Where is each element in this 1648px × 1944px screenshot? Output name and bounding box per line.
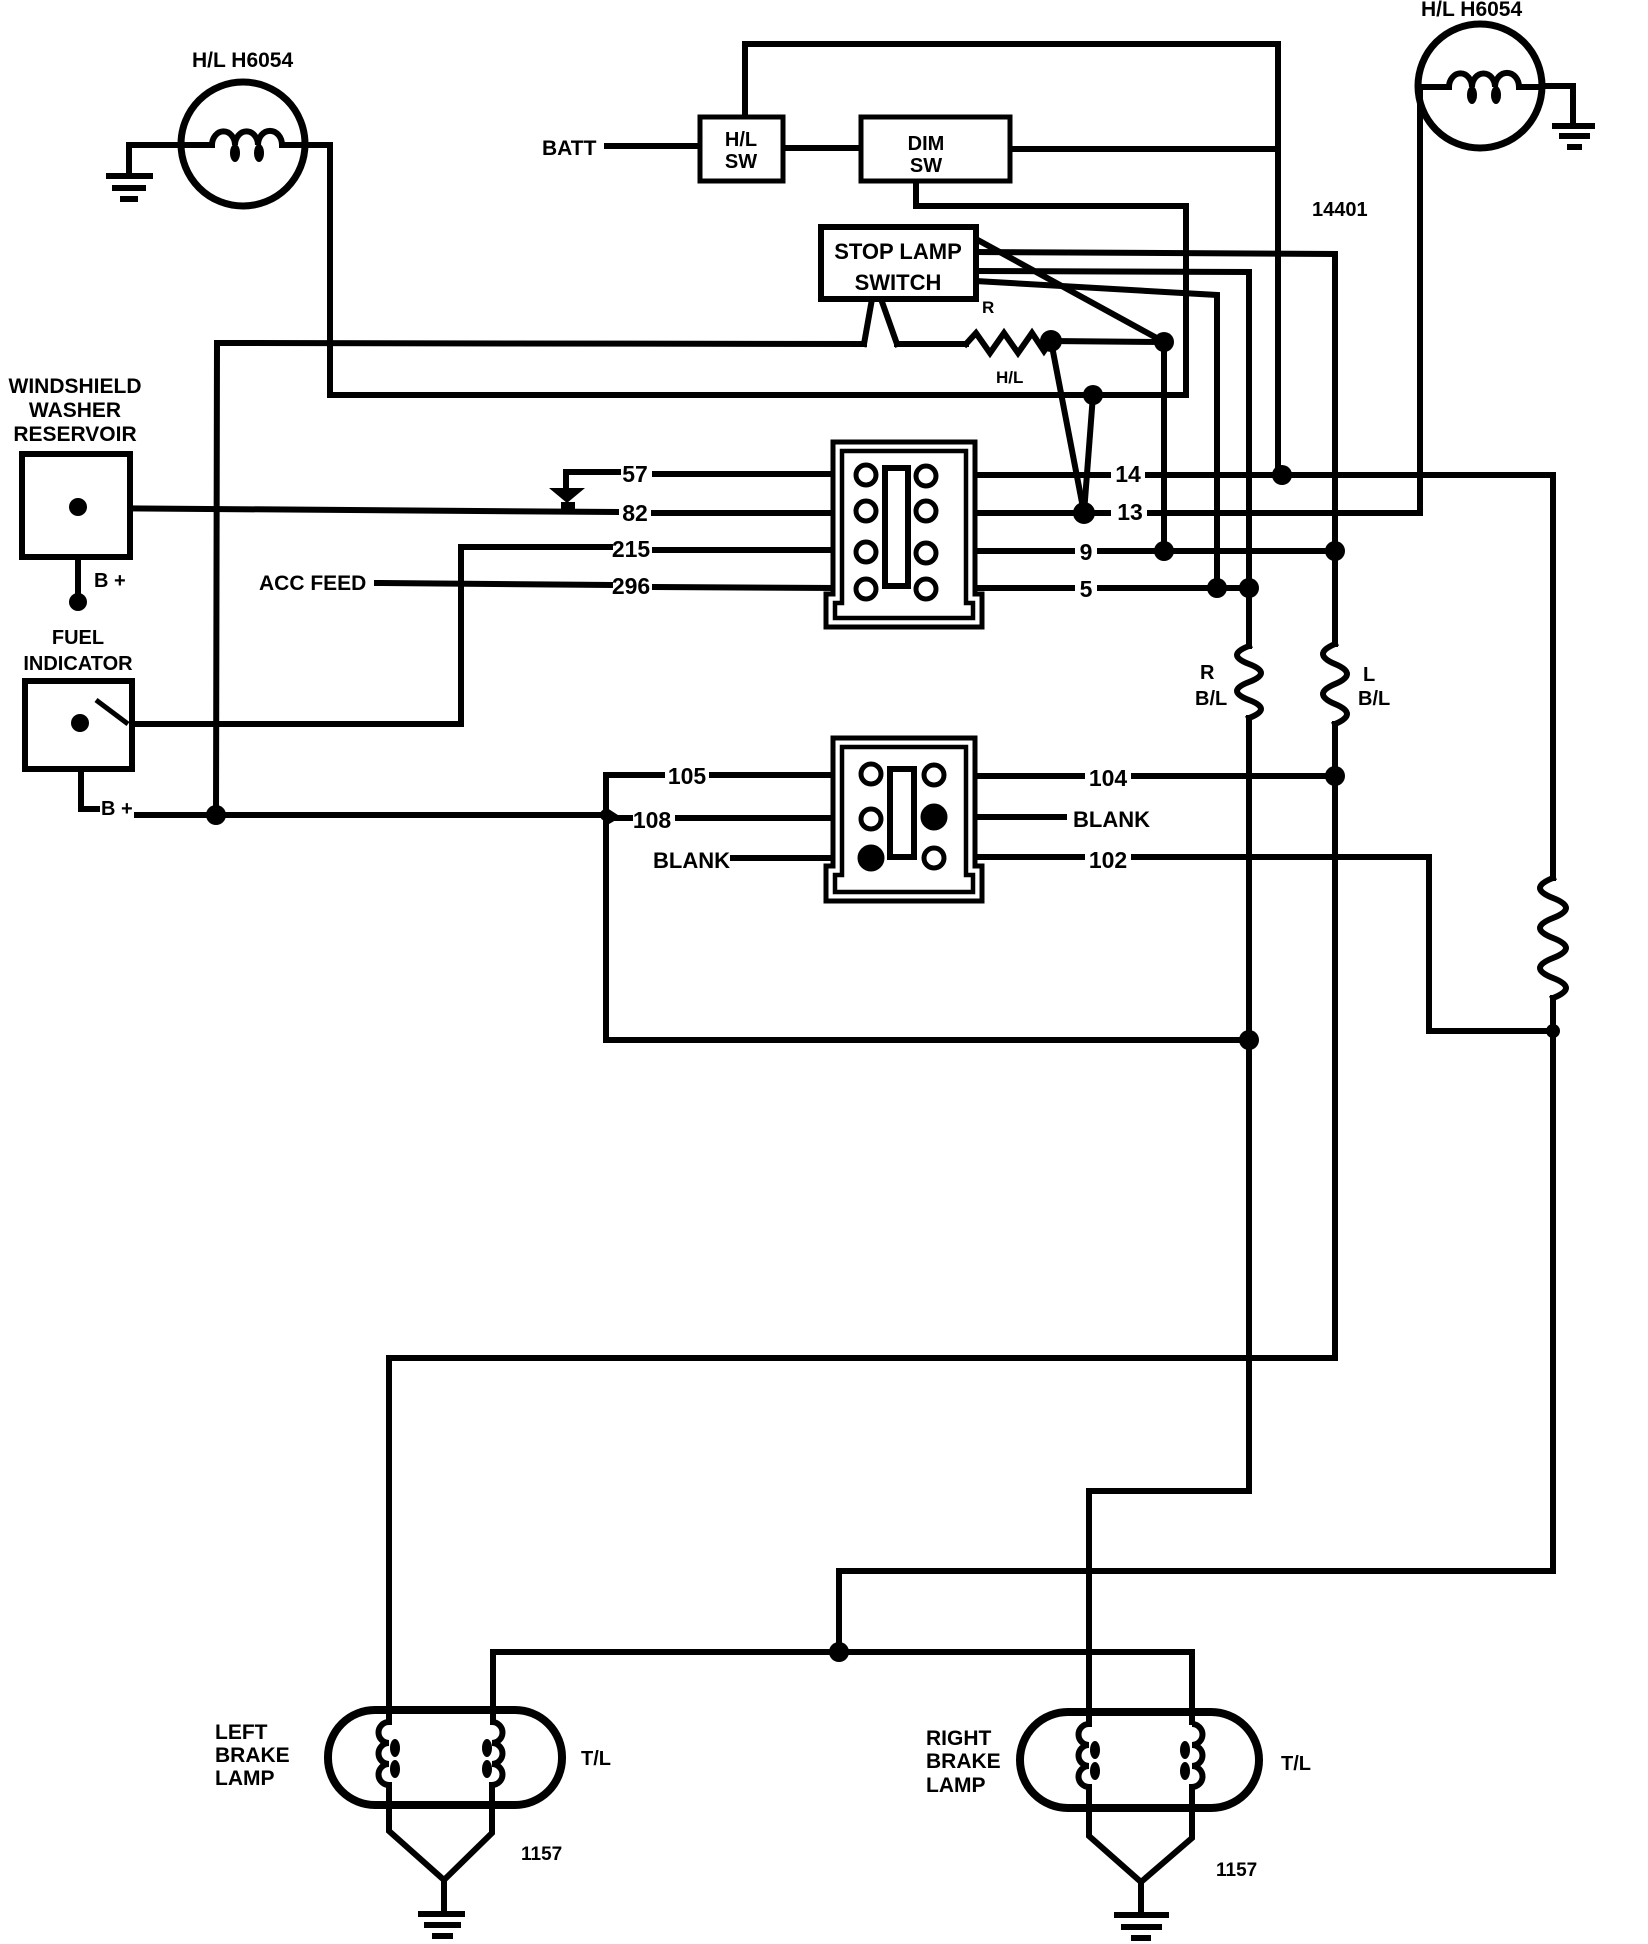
svg-text:5: 5 <box>1080 576 1093 602</box>
connector 1 pin 5 <box>916 579 936 599</box>
svg-text:B +: B + <box>94 570 126 592</box>
svg-text:WASHER: WASHER <box>29 399 121 422</box>
wire 102 line <box>974 854 1082 860</box>
connector 2 pin 104 <box>924 765 944 785</box>
right headlamp H6054 <box>1418 24 1543 148</box>
connector 2 pin 102 <box>924 848 944 868</box>
svg-text:105: 105 <box>668 763 707 789</box>
svg-text:14401: 14401 <box>1312 199 1368 221</box>
svg-text:13: 13 <box>1117 499 1143 525</box>
wire H/L SW top feed to 14-line vertical <box>745 44 1278 475</box>
wire stop lamp switch leg left <box>864 299 872 344</box>
STOP LAMP SWITCH box <box>821 227 976 299</box>
resistor right main <box>1540 878 1566 998</box>
svg-text:SW: SW <box>725 151 757 173</box>
ground left brake lamp <box>418 1914 465 1936</box>
ground right headlamp <box>1552 126 1595 147</box>
svg-text:H/L: H/L <box>725 129 757 151</box>
wire reservoir B+ stem <box>75 507 81 602</box>
connector 2 pin blank filled <box>923 806 945 828</box>
svg-text:108: 108 <box>633 807 672 833</box>
wire 105 net vertical to 1040 line <box>606 775 609 1040</box>
wire slant H/L node to 13 node <box>1084 395 1093 513</box>
svg-text:H/L H6054: H/L H6054 <box>1421 0 1522 21</box>
left brake lamp filament 1 <box>379 1722 390 1805</box>
fuel indicator switch blade <box>96 700 128 724</box>
wire BLANK right stub <box>974 814 1064 820</box>
resistor R <box>966 333 1051 353</box>
wire stop lamp switch line b to L B/L <box>976 252 1335 551</box>
labels <box>192 0 1522 595</box>
junction dot (1335,776) <box>1325 766 1345 786</box>
junction dot (216,815) <box>206 805 226 825</box>
wire fuel B+ <box>81 730 97 809</box>
wire 82 line from reservoir <box>78 508 616 512</box>
junction dot (1164,342) <box>1154 332 1174 352</box>
left headlamp bulb circle <box>181 82 305 206</box>
left brake lamp base cone <box>389 1805 492 1911</box>
wire H/L SW to DIM SW <box>783 145 861 151</box>
connector 1 pin 215 <box>856 542 876 562</box>
svg-text:BLANK: BLANK <box>1073 807 1150 832</box>
svg-text:FUEL: FUEL <box>52 627 104 649</box>
connector 1 <box>826 442 982 627</box>
svg-text:SWITCH: SWITCH <box>855 270 942 295</box>
svg-text:INDICATOR: INDICATOR <box>23 653 133 675</box>
H/L SW box <box>700 117 783 181</box>
wire 14 line <box>974 472 1108 478</box>
svg-text:T/L: T/L <box>1281 1753 1311 1775</box>
junction dot (1093,395) <box>1083 385 1103 405</box>
svg-text:L: L <box>1363 664 1375 686</box>
junction dot (1217,588) <box>1207 578 1227 598</box>
wire 13 line <box>974 510 1108 516</box>
svg-text:1157: 1157 <box>521 1844 562 1865</box>
resistor R B/L <box>1237 646 1261 718</box>
wire H/L line <box>330 392 1186 398</box>
right headlamp coil curls <box>1467 86 1477 104</box>
reservoir internal contact dot <box>69 498 87 516</box>
wire to resistor R <box>897 341 966 347</box>
wire 9 line <box>974 548 1072 554</box>
fuel indicator box <box>25 681 132 769</box>
junction dot (839,1652) <box>829 1642 849 1662</box>
wire left headlamp to ground <box>129 145 181 176</box>
wire right main vertical lower <box>839 998 1553 1652</box>
svg-text:B/L: B/L <box>1358 688 1390 710</box>
ground right brake lamp <box>1114 1915 1169 1938</box>
wire 104 line <box>974 773 1082 779</box>
right headlamp filament coil <box>1420 73 1543 87</box>
connector 1 pin 9 <box>916 543 936 563</box>
connector 2 <box>826 738 982 901</box>
wire 57 line <box>566 472 618 490</box>
svg-text:DIM: DIM <box>908 133 945 155</box>
connector 2 pin 108 <box>861 809 881 829</box>
wire vertical 217 stop line to B+ <box>216 343 217 815</box>
junction dot (1051,341) <box>1040 330 1062 352</box>
windshield washer reservoir box <box>22 454 130 557</box>
connector 1 pin 82 <box>856 501 876 521</box>
svg-text:SW: SW <box>910 155 942 177</box>
wire BLANK left stub <box>733 855 833 861</box>
junction dot (1164,551) <box>1154 541 1174 561</box>
wire stop lamp switch line c to R B/L <box>976 271 1249 588</box>
fuel indicator contact dot <box>71 714 89 732</box>
wire BATT to H/L SW <box>607 143 700 149</box>
reservoir B+ terminal dot <box>69 593 87 611</box>
junction dot (1249,588) <box>1239 578 1259 598</box>
svg-text:296: 296 <box>612 573 650 599</box>
svg-text:82: 82 <box>622 500 648 526</box>
svg-text:R: R <box>982 298 994 317</box>
wire ACC FEED 296 line <box>377 583 610 585</box>
svg-text:B +: B + <box>101 798 133 820</box>
wire 108 line <box>610 815 630 821</box>
right brake lamp filament 2 <box>1192 1724 1203 1808</box>
wire resistor R to node <box>1051 341 1164 342</box>
wire stop lamp switch line d <box>976 281 1217 588</box>
DIM SW box <box>861 117 1010 181</box>
svg-text:LEFT: LEFT <box>215 1721 268 1744</box>
wire slant resistor node to 13 node <box>1051 341 1084 513</box>
connector 1 pin 14 <box>916 466 936 486</box>
wire right headlamp to ground <box>1543 86 1573 124</box>
wire right lamp right filament up <box>1189 1652 1195 1722</box>
wire node to 9-line <box>1161 342 1167 551</box>
wire R B/L lower to right brake lamp <box>1089 718 1249 1724</box>
wire 105 line <box>606 772 662 778</box>
wire L B/L upper <box>1332 551 1338 644</box>
wire left headlamp right to H/L line <box>305 145 330 395</box>
svg-text:B/L: B/L <box>1195 688 1227 710</box>
wire 5 line <box>974 585 1072 591</box>
connector 2 pin 105 <box>861 764 881 784</box>
wire DIM SW right to vertical 1278 <box>1010 146 1278 152</box>
junction arrow at 108 tap <box>604 806 621 827</box>
wire stop lamp line y343 left <box>217 343 864 344</box>
junction dot (1249,1040) <box>1239 1030 1259 1050</box>
connector 1 pin 296 <box>856 579 876 599</box>
wire 215 line <box>461 544 610 550</box>
svg-text:BRAKE: BRAKE <box>215 1744 290 1767</box>
ground arrow at 57 <box>549 488 585 509</box>
left headlamp H6054 <box>181 82 305 206</box>
svg-text:WINDSHIELD: WINDSHIELD <box>9 375 142 398</box>
fuel indicator terminal dot <box>71 714 89 732</box>
svg-text:LAMP: LAMP <box>926 1774 986 1797</box>
connector 1 pin 13 <box>916 501 936 521</box>
svg-text:R: R <box>1200 662 1215 684</box>
left headlamp coil curls <box>230 144 240 162</box>
right brake lamp <box>1020 1712 1259 1808</box>
svg-text:ACC FEED: ACC FEED <box>259 572 366 595</box>
svg-text:T/L: T/L <box>581 1748 611 1770</box>
junction dot (1553,1031) <box>1546 1024 1560 1038</box>
svg-text:BATT: BATT <box>542 137 597 160</box>
svg-text:RESERVOIR: RESERVOIR <box>13 423 136 446</box>
svg-text:LAMP: LAMP <box>215 1767 275 1790</box>
svg-text:RIGHT: RIGHT <box>926 1727 992 1750</box>
svg-text:1157: 1157 <box>1216 1860 1257 1881</box>
junction dot (606,815) <box>600 809 612 821</box>
svg-text:9: 9 <box>1080 539 1093 565</box>
wire stop lamp switch diagonal a <box>976 239 1164 342</box>
svg-text:H/L: H/L <box>996 368 1023 387</box>
right brake lamp base cone <box>1089 1808 1192 1913</box>
junction dot (1335,551) <box>1325 541 1345 561</box>
junction dot (1084,513) <box>1073 502 1095 524</box>
svg-text:102: 102 <box>1089 847 1127 873</box>
wire stop lamp switch leg right <box>881 299 897 344</box>
svg-text:14: 14 <box>1115 461 1141 487</box>
left brake lamp <box>328 1710 562 1805</box>
svg-text:BRAKE: BRAKE <box>926 1750 1001 1773</box>
svg-text:104: 104 <box>1089 765 1128 791</box>
resistor L B/L <box>1323 644 1347 724</box>
ground left headlamp <box>106 176 153 199</box>
wire right main vertical upper <box>1550 475 1556 878</box>
left headlamp filament coil <box>181 131 305 145</box>
wire L B/L lower to left brake lamp <box>389 724 1335 1722</box>
svg-text:H/L H6054: H/L H6054 <box>192 49 293 72</box>
connector 2 pin blank filled <box>860 847 882 869</box>
wire DIM SW bottom to H/L line <box>916 181 1186 395</box>
wire tail lamp cross line <box>493 1649 1192 1655</box>
svg-text:215: 215 <box>612 536 651 562</box>
wire left lamp right filament up <box>490 1652 496 1722</box>
wire fuel indicator to 215 <box>130 547 461 724</box>
svg-text:STOP LAMP: STOP LAMP <box>834 239 962 264</box>
svg-text:57: 57 <box>622 461 648 487</box>
connector 1 pin 57 <box>856 465 876 485</box>
right brake lamp filament 1 <box>1079 1724 1090 1808</box>
reservoir terminal dot <box>69 498 87 516</box>
left brake lamp filament 2 <box>492 1722 503 1805</box>
junction dot (1282,475) <box>1272 465 1292 485</box>
right headlamp bulb circle <box>1418 24 1542 148</box>
svg-text:BLANK: BLANK <box>653 848 730 873</box>
wire R B/L upper <box>1246 588 1252 646</box>
